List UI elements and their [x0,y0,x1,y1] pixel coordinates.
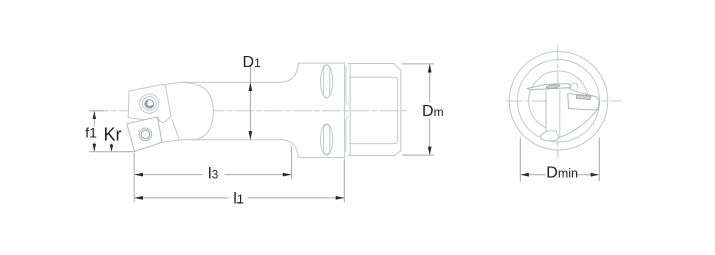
D1 arrow up [249,83,253,92]
clamp body [128,84,171,122]
dimension l3 line [135,174,291,176]
head silhouette arc [184,83,213,140]
dimension Dm extension top [403,63,434,65]
clamp nose curl [571,83,578,89]
pocket line [172,119,180,140]
l1 arrow left [134,196,143,200]
svg-text:l3: l3 [208,165,219,182]
Dmin arrow right [591,173,600,177]
Dmin extension left [519,138,521,181]
clamp block screw [576,95,590,100]
body top edge band [529,89,546,90]
extension line l3 right [290,147,292,179]
clamp screw socket [145,100,154,109]
cylinder bottom [348,155,394,157]
clamp screw mid [142,97,156,111]
outer circle [509,52,608,151]
insert hole outer [139,128,152,141]
svg-text:Dmin: Dmin [546,165,578,182]
fillet neck to flange bottom [283,140,298,158]
inner circle [529,71,589,131]
Dmin arrow left [520,173,529,177]
flange top [299,62,345,64]
slot top inner [324,65,330,97]
extension line l1 right [343,160,345,202]
f1 top extension [90,110,105,112]
slot top outer [321,65,333,98]
dimension D1 line [249,66,251,140]
sliver hole [546,84,560,89]
body internal corner line [559,90,561,138]
l3 arrow left [134,173,143,177]
svg-text:f1: f1 [85,125,97,141]
clamp block front [568,94,599,110]
neck top line [182,81,283,83]
centerline left view [90,110,408,112]
cylinder chamfer top [394,64,401,71]
mid circle [517,60,599,142]
l3 arrow right [283,173,292,177]
f1 arrow down [93,144,97,152]
right view crosshair vertical [557,45,559,158]
flange rear chamfer lower [346,117,348,152]
head bottom edge [162,140,192,143]
slot bottom outer [321,124,333,155]
f1 arrow up [93,111,97,119]
dimension l1 line [135,197,344,199]
shank taper top line [349,77,398,143]
f1 bottom extension [90,151,135,153]
clamp notch [166,82,182,87]
flange bottom [298,157,344,159]
insert sliver [527,84,571,90]
insert hole inner [141,130,150,139]
tool body front [541,88,598,141]
Dmin extension right [598,138,600,181]
flange right face [343,63,345,158]
head silhouette fill [127,82,214,151]
slot bottom inner [324,125,330,154]
right view crosshair horizontal [506,100,621,102]
foot top edge [546,131,559,138]
D1 arrow down [249,131,253,140]
cylinder left face [349,64,351,156]
neck bottom line [193,139,283,141]
cylinder top [348,63,394,65]
Kr arrow [111,144,113,148]
flange rear chamfer upper [346,67,348,105]
label l1 foot serif [237,202,242,204]
svg-text:D1: D1 [243,54,262,71]
dimension f1 line [93,111,95,151]
cylinder right face [400,70,402,150]
dimension Dm extension bottom [403,154,434,156]
dimension Dm line [429,64,431,155]
Dm arrow up [428,64,432,73]
fillet neck to flange top [283,63,299,82]
svg-text:Kr: Kr [104,124,122,144]
Dm arrow down [428,147,432,156]
svg-text:Dm: Dm [422,103,444,120]
svg-text:l1: l1 [233,190,244,207]
clamp screw outer [140,94,159,113]
cylinder chamfer bottom [394,151,401,156]
l1 arrow right [336,196,345,200]
insert [127,117,162,152]
Dmin dimension line [529,174,594,176]
extension line left (l3 l1) [133,154,135,202]
clamp screw shading [146,101,152,107]
